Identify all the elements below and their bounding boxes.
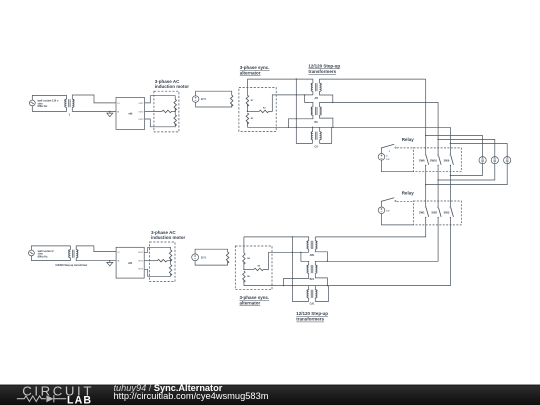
wire CA top stubs [313,127,320,131]
label CA [314,146,318,149]
svg-text:V1: V1 [117,252,119,254]
junction motor1 center [175,111,176,112]
relay1 enclosure (dashed) [413,148,461,172]
ground GND1 [107,111,113,116]
switch SW9 (relay1 phase C) [450,153,454,168]
junction bus1b top [292,236,293,237]
svg-text:BC1: BC1 [310,278,315,281]
voltage source V6 (5V relay2) [378,207,385,214]
wire CA bottom-right loop [320,127,332,143]
label SW1 [419,210,425,214]
svg-text:SW6: SW6 [419,158,425,162]
label VS2 '12 V' [201,255,207,259]
resistor R4 (phase A) [243,253,246,264]
label SW9 [444,158,450,162]
label AB [314,97,318,100]
wire relay vertical 1 (mid) [425,167,427,204]
switch SW2 (relay2 phase B) [438,205,442,220]
label BC [314,121,318,124]
label alternator1 [240,65,270,76]
wire phase A line (bottom) [244,237,315,241]
op-amp-box VFD1 [116,98,145,130]
svg-text:Relay: Relay [402,191,415,196]
junction bus2b start [300,252,301,253]
wire VFD1 OUT2 to motor [145,110,162,112]
resistor R2 (phase B, horizontal) [259,110,269,113]
wire relay vertical 1 (upper) [425,79,427,152]
svg-text:AB: AB [314,97,318,100]
label T2 '110/220 Step-up transformer' [55,264,87,267]
bus wire 1 [296,79,312,143]
svg-text:OUT1: OUT1 [138,103,143,105]
junction [327,285,328,286]
switch SW6 (relay1 phase A) [425,153,429,168]
wire R1 to center node [246,104,248,111]
voltage source V5 (5V relay1) [378,154,385,161]
wire T1 secondary top to VFD1 V1 pin [72,95,116,103]
wire BC1 bottom-right loop [315,273,327,285]
wire star2 to R5 [244,268,254,270]
label SW4 '1' [389,151,391,153]
wire VS2 loop bottom [195,261,228,265]
junction on line B [296,94,297,95]
svg-text:SW3: SW3 [444,210,450,214]
relay2 enclosure (dashed) [413,201,461,225]
wire R6 down [243,280,245,286]
svg-text:OUT1: OUT1 [138,252,143,254]
wire phase A riser (bottom) [243,237,245,253]
resistor motor1 winding B (horizontal) [162,110,172,113]
wire relay1 control loop bottom [382,160,414,172]
resistor R5 (phase B horizontal) [254,268,264,271]
switch SW3 (relay2 phase C) [450,205,454,220]
junction tap3 [450,143,451,144]
junction [425,184,426,185]
wire phase B line to relay [320,102,439,107]
svg-text:OUT3: OUT3 [138,119,143,121]
wire CA1 top stubs [309,286,316,290]
wire T2 secondary top to VFD2 [76,246,116,252]
CircuitLab logo LAB [67,395,92,405]
wire CA1 bottom-left [308,298,310,302]
svg-text:12/120 Step-up: 12/120 Step-up [308,64,340,69]
svg-text:SW2: SW2 [431,210,437,214]
alternator1 enclosure (dashed) [239,88,276,132]
wire phase A riser [246,79,248,95]
bus wire 1 (bottom) [292,237,308,302]
svg-text:induction motor: induction motor [151,235,185,240]
junction bus2 start [304,94,305,95]
lamp L3 [504,157,511,164]
wire relay vertical 3 (mid) [449,167,451,204]
svg-text:12/120 Step-up: 12/120 Step-up [296,311,328,316]
wire VS1 loop bottom [196,102,232,107]
resistor motor1 winding A (vertical top) [174,99,177,110]
lamp L1 [479,157,486,164]
svg-text:CA1: CA1 [310,303,315,306]
junction [292,252,293,253]
wire [172,110,176,112]
junction [450,175,451,176]
wire relay vertical 2 (mid) [437,167,439,204]
wire relay vertical 3 (upper) [449,127,451,152]
wire lamp1 bottom return [450,164,482,176]
svg-text:vfd: vfd [128,261,132,265]
svg-text:transformers: transformers [296,317,324,322]
lamp L2 [491,157,498,164]
wire T2 secondary bottom to VFD2 [76,258,116,261]
svg-text:5 V: 5 V [386,210,390,212]
label V6 [386,210,390,212]
svg-text:SW9: SW9 [444,158,450,162]
CircuitLab logo CIRCUIT [22,383,94,398]
wire VS2 loop top [195,249,228,254]
label motor1 [155,79,189,89]
wire lamp3 bottom return [426,164,508,185]
label V1 values [38,99,59,109]
svg-text:vfd: vfd [128,112,132,116]
svg-text:60Hz Hz: 60Hz Hz [38,104,49,108]
svg-text:12 V: 12 V [201,97,207,101]
transformer BC [311,107,322,115]
svg-text:OUT2: OUT2 [138,111,143,113]
wire relay vertical 2 (lower) [315,220,438,266]
transformer T2 [68,250,78,258]
label SW10 [430,158,438,162]
transformer BC1 [307,265,318,273]
label BC1 [310,278,315,281]
label SW3 [444,210,450,214]
dashed actuator link relay1 [397,147,414,149]
svg-text:V1: V1 [117,103,119,105]
wire VFD2 OUT2 to motor2 [144,260,157,262]
svg-text:LAB: LAB [67,395,92,405]
svg-text:AB1: AB1 [310,254,315,257]
resistor motor2 winding C [169,265,172,276]
label V2 values [38,249,55,259]
wire VFD1 OUT3 to motor [145,119,176,127]
label R5 [258,266,261,268]
wire phase A line (top) [247,79,425,83]
wire [167,260,171,262]
label R6 [247,276,250,278]
wire AB1 bottom-left stub [308,249,310,252]
voltage source V2 (wall socket 2) [29,250,35,256]
svg-text:Relay: Relay [402,137,415,142]
junction motor2 center [170,260,171,261]
wire relay vertical 2 (upper) [437,102,439,152]
label step-up transformers (top) [308,64,340,75]
junction [327,261,328,262]
label SW6 [419,158,425,162]
wire BC bottom-right loop [320,115,333,127]
resistor field R (vertical) [230,95,233,106]
wire AB1 bottom-right loop [315,249,327,261]
wire BC bottom-left [288,115,313,127]
svg-text:induction motor: induction motor [155,84,189,89]
label R3 [251,118,254,120]
svg-text:CA: CA [314,146,318,149]
junction [292,285,293,286]
junction [288,127,289,128]
svg-text:http://circuitlab.com/cye4wsmu: http://circuitlab.com/cye4wsmug583m [114,391,269,401]
svg-text:SW10: SW10 [430,158,438,162]
wire CA bottom-left [312,140,314,144]
switch SW4 relay1 control [381,144,396,148]
junction tap2 [437,139,438,140]
bus wire 2 (bottom) [301,252,309,265]
wire VFD2 OUT1 to motor2 [144,247,170,252]
resistor field R2 (vertical) [226,252,229,263]
resistor motor1 winding C (vertical bottom) [174,115,177,126]
label step-up transformers (bottom) [296,311,328,322]
wire CA1 bottom-right loop [315,286,328,302]
label R4 [247,257,250,260]
transformer CA1 [307,290,318,298]
label motor2 [151,230,185,240]
svg-text:OUT2: OUT2 [138,261,143,263]
junction [332,127,333,128]
wire lamp2 top feed [438,139,495,156]
label R1 [251,100,254,102]
wire R2 out to line B [269,95,313,112]
resistor motor2 winding B (horizontal) [157,259,167,262]
wire lamp1 top feed [426,136,483,157]
ground GND2 [107,261,113,266]
wire relay2 control loop [381,201,383,207]
wire T1 secondary bottom to VFD1 IN pin [72,107,116,111]
voltage source V1 (wall socket 110v sine 60Hz) [29,100,35,106]
junction alternator1 star point [247,111,248,112]
junction [312,127,313,128]
wire VS1 loop top [196,91,232,96]
alternator2 enclosure (dashed) [235,246,272,290]
wire relay vertical 3 (lower) [244,220,451,286]
wire relay2 control loop bottom [382,214,414,225]
resistor R6 (phase C) [243,271,246,282]
label V5 [386,155,390,160]
label VS1 '12 V' [201,97,207,101]
label Relay (1) [402,137,415,142]
junction bus1 top [296,78,297,79]
label SW2 [431,210,437,214]
wire AB bottom-left stub [312,91,314,95]
junction [437,179,438,180]
switch SW1 (relay2 phase A) [425,205,429,220]
junction [283,285,284,286]
svg-text:alternator: alternator [240,301,261,306]
resistor R1 (phase A) [246,95,249,106]
wire BC1 bottom-left [284,273,309,285]
logo resistor-diode glyph [17,395,66,402]
svg-text:BC: BC [314,121,318,124]
wire VFD2 OUT3 to motor2 [144,269,170,276]
bus wire 2 [305,95,313,107]
motor2 enclosure (dashed) [150,242,176,282]
footer title text [114,383,223,393]
wire R4 to center [243,262,245,269]
dashed actuator link relay2 [397,200,414,202]
label AB1 [310,254,315,257]
voltage source VS2 12V [192,254,199,261]
svg-text:110/220 Step-up transformer: 110/220 Step-up transformer [55,264,87,267]
label T1 '1' [69,112,71,116]
svg-text:SW1: SW1 [419,210,425,214]
label Relay (2) [402,191,415,196]
junction on IN wire 2 [109,260,110,261]
svg-text:transformers: transformers [308,69,336,74]
op-amp-box VFD2 [116,247,144,278]
wire lamp2 bottom return [438,164,495,180]
label CA1 [310,303,315,306]
wire V2 to T2 primary [31,246,70,261]
wire R3 down [246,122,248,127]
transformer AB1 [307,241,318,249]
wire relay vertical 1 (lower) [315,220,425,237]
svg-text:OUT3: OUT3 [138,269,143,271]
transformer AB [311,83,322,91]
wire star to R2 [247,110,259,112]
junction on IN wire [109,111,110,112]
wire [174,108,176,115]
junction [332,102,333,103]
svg-text:alternator: alternator [240,71,261,76]
svg-text:5 V: 5 V [386,159,390,161]
wire V1 to T1 primary [32,95,66,111]
wire [170,259,172,265]
wire AB bottom-right loop [320,91,333,102]
voltage source VS1 12V [192,96,199,103]
wire R5 out to line B2 [263,252,308,269]
motor1 enclosure (dashed) [154,91,179,132]
svg-text:3-phase sync.: 3-phase sync. [240,295,270,300]
junction alternator2 star point [243,269,244,270]
svg-text:12 V: 12 V [201,255,207,259]
svg-text:60Hz Hz: 60Hz Hz [38,254,49,258]
wire phase C long line [247,126,450,128]
label alternator2 [240,295,270,306]
junction [296,118,297,119]
label R2 [263,108,266,110]
wire VFD1 OUT1 to motor [145,96,176,103]
footer bar [0,385,540,405]
resistor motor2 winding A [169,250,172,261]
transformer CA [311,132,322,140]
wire relay1 control loop [381,148,383,154]
svg-text:3-phase sync.: 3-phase sync. [240,65,270,70]
footer url text [114,391,269,401]
switch SW7 relay2 control [381,198,396,202]
junction tap1 [425,135,426,136]
transformer T1 [65,99,75,107]
resistor R3 (phase C) [246,113,249,124]
wire lamp3 top feed [450,144,507,157]
junction [296,127,297,128]
switch SW10 (relay1 phase B) [438,153,442,168]
